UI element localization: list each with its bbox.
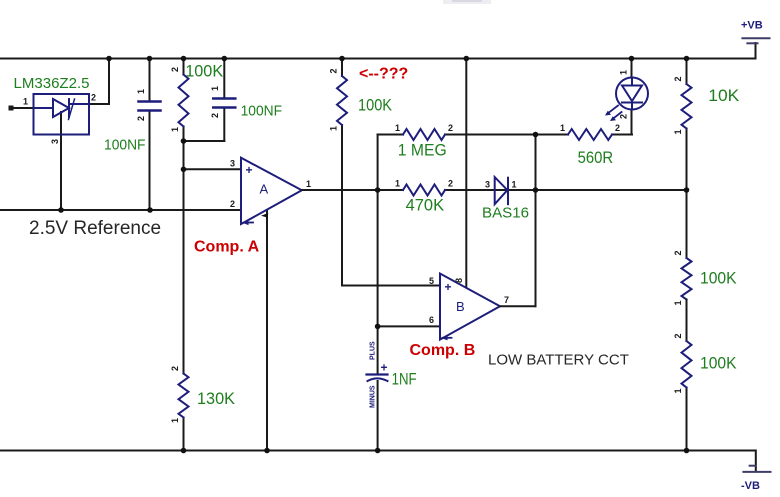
wire 1MEG/560R row [378, 134, 403, 136]
wire 1MEG left node vertical [377, 135, 379, 375]
svg-text:2: 2 [673, 333, 683, 338]
resistor R? 560R [560, 123, 620, 167]
power symbol +VB [741, 20, 770, 44]
svg-text:+: + [381, 361, 388, 375]
capacitor C? 100NF (second) [210, 59, 282, 142]
resistor R? 1 MEG [395, 123, 453, 160]
svg-text:2: 2 [170, 366, 180, 371]
svg-text:1: 1 [170, 418, 180, 423]
svg-text:A: A [260, 182, 269, 197]
svg-text:2: 2 [230, 199, 235, 209]
wire 130K branch vertical [183, 141, 185, 374]
capacitor C? 100NF (left) wires [149, 59, 151, 102]
svg-text:2: 2 [329, 68, 339, 73]
svg-text:1: 1 [395, 123, 400, 133]
LM336 pin 2 wire [89, 59, 109, 105]
svg-text:560R: 560R [578, 148, 614, 167]
svg-text:+VB: +VB [741, 20, 763, 32]
svg-text:1: 1 [306, 179, 311, 189]
wire op-amp B pin6 branch [378, 325, 440, 327]
svg-text:1: 1 [136, 89, 146, 94]
svg-text:2: 2 [91, 93, 96, 103]
resistor R? 10K [673, 59, 740, 191]
wire op-amp B output [500, 305, 536, 307]
svg-text:+: + [246, 163, 253, 177]
wire 100K-100NF bottom connector [184, 140, 225, 142]
svg-text:100NF: 100NF [104, 137, 146, 154]
svg-text:1: 1 [673, 388, 683, 393]
svg-text:1: 1 [329, 126, 339, 131]
voltage reference U? LM336Z2.5 body [34, 94, 90, 135]
resistor R? 100K (right upper) [673, 190, 737, 306]
svg-text:2: 2 [136, 116, 146, 121]
svg-text:1: 1 [395, 179, 400, 189]
svg-text:2: 2 [448, 179, 453, 189]
svg-text:1 MEG: 1 MEG [398, 141, 447, 160]
svg-text:130K: 130K [197, 389, 236, 408]
resistor R? 100K (middle, <--???) [329, 59, 393, 286]
svg-text:2: 2 [615, 123, 620, 133]
wire node to op-amp pin3 [184, 168, 242, 170]
svg-text:B: B [456, 299, 465, 314]
svg-text:1: 1 [210, 86, 220, 91]
svg-text:2: 2 [170, 67, 180, 72]
svg-text:100K: 100K [358, 96, 393, 115]
svg-text:+: + [445, 280, 452, 294]
op-amp A (Comp. A) [230, 158, 311, 451]
svg-text:BAS16: BAS16 [482, 205, 529, 222]
svg-text:470K: 470K [406, 196, 445, 215]
svg-text:1: 1 [560, 123, 565, 133]
svg-text:5: 5 [429, 276, 434, 286]
svg-text:6: 6 [429, 315, 434, 325]
svg-text:100K: 100K [700, 354, 737, 373]
svg-text:7: 7 [504, 295, 509, 305]
svg-text:3: 3 [485, 180, 490, 190]
svg-text:1: 1 [23, 97, 28, 107]
svg-text:-VB: -VB [741, 480, 760, 492]
faint cropped smudge top [443, 0, 491, 4]
svg-text:100K: 100K [185, 62, 224, 81]
svg-text:2: 2 [619, 114, 629, 119]
svg-text:100K: 100K [700, 269, 737, 288]
svg-text:8: 8 [454, 278, 464, 283]
svg-text:3: 3 [230, 159, 235, 169]
svg-text:1: 1 [673, 300, 683, 305]
svg-text:LM336Z2.5: LM336Z2.5 [14, 75, 90, 92]
resistor R? 470K [395, 179, 453, 215]
svg-text:2: 2 [210, 113, 220, 118]
LM336 pin 3 wire [50, 112, 61, 210]
svg-text:1: 1 [170, 127, 180, 132]
LED D? [605, 59, 648, 135]
resistor R? 100K (top-left) [170, 59, 224, 142]
resistor R? 130K [170, 366, 236, 423]
svg-text:3: 3 [50, 139, 60, 144]
svg-text:2: 2 [448, 123, 453, 133]
svg-text:PLUS: PLUS [370, 341, 377, 360]
svg-text:LOW BATTERY CCT: LOW BATTERY CCT [488, 352, 629, 369]
wire top +VB rail [0, 43, 756, 59]
wire BAS16 node vertical (to opB out) [535, 135, 537, 307]
wire 2.5V reference rail [0, 209, 241, 211]
wire bottom -VB rail [0, 451, 756, 472]
svg-text:Comp. A: Comp. A [194, 239, 260, 256]
wire op-amp B pin5 branch [342, 285, 440, 287]
svg-text:1: 1 [512, 180, 517, 190]
LM336 pin 1 wire and pad [9, 97, 34, 111]
capacitor C? 100NF (left) plates [139, 102, 161, 111]
svg-text:100NF: 100NF [241, 103, 283, 120]
svg-text:2: 2 [673, 76, 683, 81]
svg-text:2: 2 [673, 250, 683, 255]
capacitor C? 1NF polarized [367, 341, 417, 408]
svg-text:<--???: <--??? [359, 66, 408, 83]
svg-text:Comp. B: Comp. B [410, 342, 476, 359]
svg-text:1: 1 [673, 129, 683, 134]
svg-text:1NF: 1NF [392, 370, 417, 389]
svg-text:1: 1 [619, 70, 629, 75]
power symbol -VB [741, 466, 771, 492]
svg-text:MINUS: MINUS [370, 385, 377, 408]
op-amp B (Comp. B) [429, 59, 509, 341]
svg-text:2.5V Reference: 2.5V Reference [29, 218, 161, 239]
svg-text:10K: 10K [708, 86, 740, 105]
diode D? BAS16 [482, 177, 529, 221]
resistor R? 100K (right lower) [673, 300, 737, 451]
wire op-amp A output rail [302, 189, 403, 191]
